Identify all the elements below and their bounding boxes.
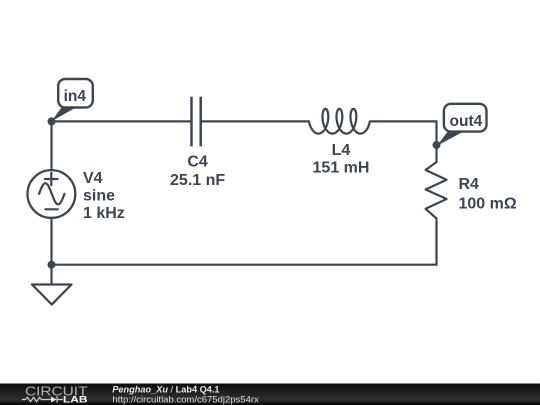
- V4 minus sign: [45, 208, 57, 210]
- svg-text:http://circuitlab.com/c675dj2p: http://circuitlab.com/c675dj2ps54rx: [113, 394, 260, 405]
- svg-text:Penghao_Xu / Lab4 Q4.1: Penghao_Xu / Lab4 Q4.1: [112, 384, 219, 394]
- wire right vertical (corner to R4 top): [435, 121, 437, 162]
- inductor L4 coil: [309, 109, 370, 134]
- svg-text:out4: out4: [450, 113, 483, 130]
- wire top-left segment (in4 node to C4): [52, 120, 192, 122]
- voltage source V4 circle: [28, 170, 76, 218]
- wire bottom horizontal: [52, 264, 437, 266]
- svg-text:100 mΩ: 100 mΩ: [459, 195, 517, 212]
- out4 callout tail: [437, 128, 470, 146]
- out4 callout box: [444, 104, 487, 132]
- wire C4 to L4: [201, 120, 309, 122]
- svg-text:L4: L4: [332, 142, 351, 159]
- svg-text:V4: V4: [83, 170, 103, 187]
- svg-text:LAB: LAB: [63, 394, 88, 405]
- CircuitLab logo zigzag-diode line: [22, 396, 63, 402]
- in4 callout box: [58, 79, 93, 108]
- CircuitLab logo diode triangle: [51, 397, 57, 403]
- svg-text:25.1 nF: 25.1 nF: [170, 172, 225, 189]
- in4 callout tail: [52, 104, 83, 121]
- svg-text:in4: in4: [64, 88, 87, 105]
- capacitor C4 plates: [192, 97, 201, 147]
- svg-text:151 mH: 151 mH: [313, 160, 370, 177]
- footer bar: [0, 384, 540, 405]
- V4 sine waveform: [39, 183, 65, 204]
- V4 plus sign: [45, 173, 58, 185]
- wire left vertical (in4 node to V4 top): [50, 121, 52, 170]
- ground symbol triangle: [32, 285, 72, 305]
- wire L4 to out4 corner: [370, 120, 437, 122]
- svg-text:C4: C4: [187, 154, 208, 171]
- node dot out4: [433, 141, 441, 149]
- resistor R4 zigzag: [426, 162, 447, 219]
- wire R4 bottom vertical: [435, 219, 437, 265]
- svg-text:sine: sine: [83, 187, 115, 204]
- wire V4 bottom to ground node: [50, 218, 52, 265]
- node dot ground: [48, 261, 56, 269]
- node dot in4: [48, 117, 56, 125]
- svg-text:1 kHz: 1 kHz: [83, 205, 125, 222]
- wire ground stub: [50, 265, 52, 285]
- svg-text:R4: R4: [459, 176, 480, 193]
